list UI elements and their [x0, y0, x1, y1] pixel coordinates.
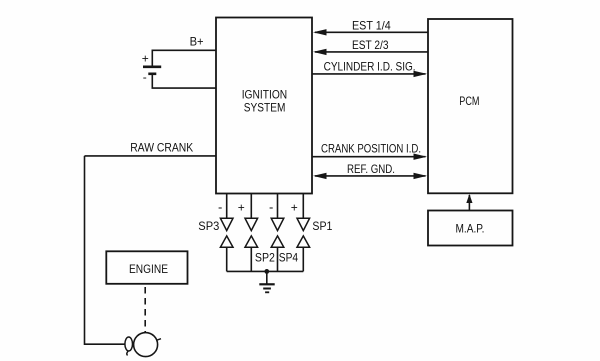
svg-text:SP2: SP2	[255, 251, 275, 265]
svg-text:EST 1/4: EST 1/4	[352, 18, 391, 32]
junction dot ground node	[264, 269, 269, 274]
battery B1 plus plate	[143, 66, 161, 69]
svg-text:+: +	[291, 201, 298, 215]
wire left vertical to sensor	[85, 156, 125, 344]
engine box	[106, 251, 187, 283]
svg-text:RAW CRANK: RAW CRANK	[130, 141, 193, 155]
arrowhead crank position id into PCM	[414, 154, 428, 160]
svg-text:IGNITION: IGNITION	[242, 89, 288, 101]
wire ground bus	[227, 270, 304, 272]
svg-text:ENGINE: ENGINE	[129, 262, 168, 276]
svg-text:SP1: SP1	[312, 219, 332, 233]
wire ref gnd	[315, 175, 426, 177]
spark plug gap SP4	[271, 218, 284, 247]
spark plug gap SP3	[220, 218, 233, 247]
wire ground stem	[266, 271, 268, 283]
wire EST 1/4	[315, 31, 428, 33]
svg-text:EST 2/3: EST 2/3	[352, 38, 389, 52]
ground symbol	[259, 284, 274, 292]
svg-text:CYLINDER I.D. SIG.: CYLINDER I.D. SIG.	[324, 59, 416, 73]
wire spark plug 3 lead	[277, 193, 279, 218]
svg-text:B+: B+	[190, 35, 204, 49]
svg-text:REF. GND.: REF. GND.	[347, 162, 395, 176]
svg-text:M.A.P.: M.A.P.	[456, 222, 485, 236]
ignition system box U1	[216, 18, 312, 194]
M.A.P. box U3	[428, 211, 513, 246]
crank sensor tick	[157, 339, 161, 340]
svg-text:SP3: SP3	[198, 219, 219, 233]
wire spark plug 2 lead	[250, 193, 252, 218]
crank sensor rotor circle	[134, 333, 158, 357]
wire crank position id	[312, 156, 426, 158]
wire SP2 return	[250, 247, 252, 271]
arrowhead cylinder id sig into PCM	[414, 71, 428, 77]
wire RAW CRANK	[85, 155, 217, 157]
svg-text:-: -	[218, 200, 222, 215]
arrowhead EST 2/3 into ignition	[313, 49, 327, 55]
spark plug gap SP1	[297, 218, 310, 247]
svg-text:-: -	[143, 70, 147, 84]
wire SP4 return	[277, 247, 279, 271]
wire spark plug 1 lead	[226, 193, 228, 218]
wire cylinder id sig	[312, 73, 426, 75]
svg-text:+: +	[238, 201, 245, 215]
wire MAP to PCM	[468, 195, 470, 211]
arrowhead ref gnd into ignition	[313, 173, 327, 179]
wire dashed engine to sensor	[144, 287, 146, 333]
PCM box U2	[428, 19, 513, 193]
arrowhead ref gnd into PCM	[414, 173, 428, 179]
svg-text:SYSTEM: SYSTEM	[244, 102, 286, 114]
arrowhead MAP into PCM	[466, 194, 472, 203]
svg-text:PCM: PCM	[459, 94, 479, 108]
svg-text:-: -	[269, 200, 273, 215]
spark plug gap SP2	[245, 218, 258, 247]
wire SP1 return	[302, 247, 304, 271]
svg-text:SP4: SP4	[279, 251, 299, 265]
wire spark plug 4 lead	[302, 193, 304, 218]
wire SP3 return	[226, 247, 228, 271]
wire battery minus to ignition	[152, 74, 216, 88]
crank sensor pickup	[125, 337, 133, 355]
battery B1 minus plate	[148, 73, 156, 76]
arrowhead EST 1/4 into ignition	[313, 29, 327, 35]
svg-text:+: +	[142, 51, 149, 65]
wire EST 2/3	[315, 51, 428, 53]
svg-text:CRANK POSITION I.D.: CRANK POSITION I.D.	[321, 142, 421, 156]
wire B+ top	[152, 50, 216, 66]
